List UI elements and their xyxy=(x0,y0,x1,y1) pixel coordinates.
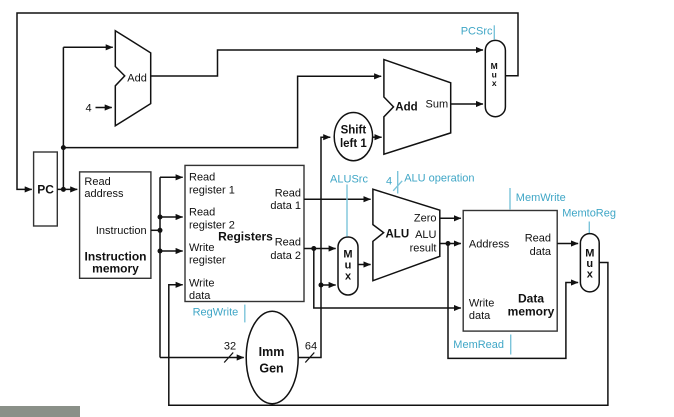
ellipse Shift left 1 xyxy=(334,113,372,161)
wire Read data 1 to ALU top input xyxy=(304,198,371,200)
svg-text:x: x xyxy=(492,78,497,88)
junction Read data 2 xyxy=(311,246,316,251)
svg-text:Add: Add xyxy=(127,72,147,84)
registers file xyxy=(185,165,304,302)
svg-text:Read: Read xyxy=(525,233,551,245)
svg-text:32: 32 xyxy=(224,341,236,353)
svg-text:result: result xyxy=(410,243,437,255)
junction instruction bus at output xyxy=(158,228,163,233)
svg-text:MemWrite: MemWrite xyxy=(516,192,566,204)
svg-text:ALU: ALU xyxy=(386,229,410,241)
svg-text:Data: Data xyxy=(518,292,544,306)
svg-text:Registers: Registers xyxy=(218,229,273,243)
svg-text:ALU operation: ALU operation xyxy=(404,173,474,185)
wire Shift left 1 output to Add2 bottom input xyxy=(373,136,382,138)
svg-text:x: x xyxy=(345,271,352,283)
PC register xyxy=(34,152,58,226)
junction instruction bus at write register xyxy=(158,249,163,254)
svg-text:Imm: Imm xyxy=(259,345,285,359)
svg-text:4: 4 xyxy=(85,103,91,115)
svg-text:left 1: left 1 xyxy=(340,138,367,150)
svg-text:x: x xyxy=(587,269,594,281)
wire instruction bus out of instruction memory xyxy=(151,229,160,231)
wire ALU result to Data memory Address xyxy=(440,243,461,245)
wire PC feedback loop (PCSrc mux output to PC input) xyxy=(17,13,518,189)
wire constant 4 to Add1 bottom input xyxy=(96,107,112,109)
wire instruction bus vertical xyxy=(159,177,161,357)
wire ALU Zero output xyxy=(440,217,461,219)
svg-text:data: data xyxy=(530,246,552,258)
gray bar bottom left xyxy=(0,406,80,417)
svg-text:data: data xyxy=(189,290,211,302)
svg-text:Add: Add xyxy=(395,102,417,114)
wire PC output to Instruction memory Read address xyxy=(57,188,77,190)
svg-text:data 2: data 2 xyxy=(270,250,301,262)
svg-text:Read: Read xyxy=(189,207,215,219)
wire Imm Gen output riser to Shift left 1 with 64 slash xyxy=(298,137,330,362)
svg-text:Read: Read xyxy=(275,237,301,249)
wire Add1 output to PCSrc mux top input xyxy=(151,50,483,76)
svg-text:Address: Address xyxy=(469,239,510,251)
mux PCSrc xyxy=(485,40,505,116)
data memory xyxy=(463,211,557,332)
svg-text:MemRead: MemRead xyxy=(453,339,504,351)
svg-text:ALU: ALU xyxy=(415,229,436,241)
control PCSrc xyxy=(461,25,495,39)
wire ALUSrc mux output to ALU bottom input xyxy=(358,264,371,266)
wire immediate to ALUSrc mux bottom input xyxy=(321,284,336,286)
svg-text:ALUSrc: ALUSrc xyxy=(330,174,368,186)
svg-text:4: 4 xyxy=(386,176,392,188)
junction ALU result xyxy=(446,241,451,246)
svg-text:data: data xyxy=(469,310,491,322)
control ALU operation xyxy=(386,171,475,194)
junction instruction bus at read register 2 xyxy=(158,215,163,220)
svg-text:Write: Write xyxy=(189,242,214,254)
svg-text:Zero: Zero xyxy=(414,213,437,225)
wire to Read register 1 xyxy=(160,176,183,178)
adder Add1 (PC+4) xyxy=(115,31,150,126)
wire PC riser xyxy=(62,47,64,189)
junction PC output xyxy=(61,187,66,192)
svg-text:memory: memory xyxy=(508,305,555,319)
junction immediate to ALUSrc mux xyxy=(319,283,324,288)
wire MemtoReg mux output writeback loop to Registers Write data xyxy=(169,263,608,406)
svg-text:Read: Read xyxy=(84,176,110,188)
svg-text:Write: Write xyxy=(189,278,214,290)
control ALUSrc xyxy=(330,174,368,237)
svg-text:RegWrite: RegWrite xyxy=(193,307,239,319)
svg-text:Read: Read xyxy=(189,172,215,184)
svg-text:register: register xyxy=(189,254,226,266)
svg-text:Instruction: Instruction xyxy=(96,225,147,237)
wire instruction to Imm Gen with 32 width slash xyxy=(160,341,244,363)
wire to Read register 2 xyxy=(160,216,183,218)
wire to Write register xyxy=(160,250,183,252)
svg-text:MemtoReg: MemtoReg xyxy=(562,208,616,220)
svg-text:register 1: register 1 xyxy=(189,185,235,197)
wire Data memory Read data to MemtoReg mux top input xyxy=(557,243,578,245)
control MemWrite xyxy=(510,188,566,210)
wire Read data 2 to ALUSrc mux top input xyxy=(304,248,336,250)
svg-text:data 1: data 1 xyxy=(270,200,301,212)
control MemRead xyxy=(453,335,510,355)
svg-text:Gen: Gen xyxy=(259,362,283,376)
svg-text:Sum: Sum xyxy=(426,98,449,110)
svg-text:Write: Write xyxy=(469,298,494,310)
wire ALU result bypass to MemtoReg mux bottom input xyxy=(448,244,578,359)
mux MemtoReg xyxy=(580,234,599,292)
ALU xyxy=(373,189,440,281)
svg-text:address: address xyxy=(84,188,124,200)
control MemtoReg xyxy=(562,208,616,234)
wire PC branch to Add2 top input xyxy=(63,76,381,147)
wire Add2 Sum output to PCSrc mux bottom input xyxy=(451,103,483,105)
svg-text:memory: memory xyxy=(92,262,139,276)
junction PC branch xyxy=(61,145,66,150)
svg-text:64: 64 xyxy=(305,341,317,353)
svg-text:PCSrc: PCSrc xyxy=(461,26,493,38)
adder Add2 (branch target) xyxy=(384,60,451,155)
mux ALUSrc xyxy=(338,237,358,295)
wire Read data 2 branch to Data memory Write data xyxy=(314,249,461,309)
svg-text:Read: Read xyxy=(275,187,301,199)
svg-text:PC: PC xyxy=(37,182,54,196)
ellipse Imm Gen xyxy=(246,311,298,404)
svg-text:Shift: Shift xyxy=(341,125,367,137)
wire riser to Add1 top input xyxy=(63,46,112,48)
control RegWrite xyxy=(193,305,245,323)
instruction memory xyxy=(80,172,151,278)
